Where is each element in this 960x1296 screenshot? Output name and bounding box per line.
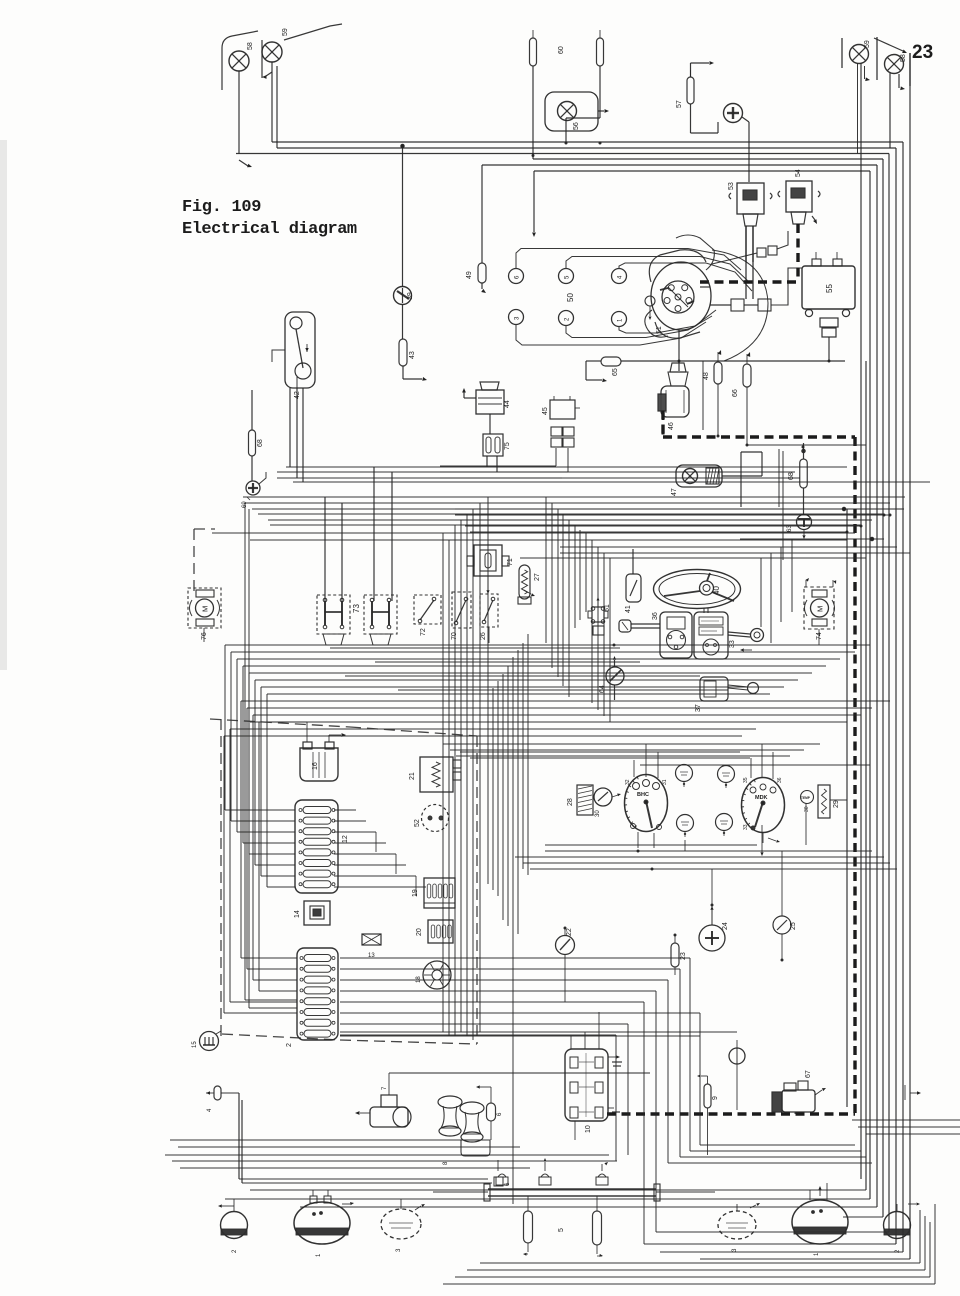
svg-text:25: 25 bbox=[790, 922, 797, 930]
svg-text:33: 33 bbox=[729, 640, 736, 648]
svg-text:5: 5 bbox=[558, 1228, 565, 1232]
svg-text:9: 9 bbox=[712, 1096, 719, 1100]
svg-text:58: 58 bbox=[900, 54, 907, 62]
svg-text:72: 72 bbox=[420, 628, 427, 636]
svg-text:45: 45 bbox=[542, 407, 549, 415]
svg-text:44: 44 bbox=[504, 400, 511, 408]
svg-text:30: 30 bbox=[804, 806, 810, 812]
svg-text:67: 67 bbox=[805, 1070, 812, 1078]
svg-text:43: 43 bbox=[409, 351, 416, 359]
svg-text:26: 26 bbox=[480, 632, 487, 640]
svg-text:66: 66 bbox=[732, 389, 739, 397]
svg-text:74: 74 bbox=[816, 632, 823, 640]
svg-text:41: 41 bbox=[625, 605, 632, 613]
svg-text:27: 27 bbox=[534, 573, 541, 581]
svg-text:76: 76 bbox=[201, 632, 208, 640]
svg-text:21: 21 bbox=[409, 772, 416, 780]
svg-text:36: 36 bbox=[652, 612, 659, 620]
svg-text:58: 58 bbox=[247, 42, 254, 50]
svg-text:31: 31 bbox=[662, 779, 668, 785]
svg-text:39: 39 bbox=[407, 292, 414, 300]
svg-text:53: 53 bbox=[728, 182, 735, 190]
svg-text:59: 59 bbox=[864, 40, 871, 48]
svg-text:22: 22 bbox=[566, 928, 573, 936]
svg-text:35: 35 bbox=[743, 777, 749, 783]
svg-text:55: 55 bbox=[825, 284, 834, 293]
svg-text:57: 57 bbox=[676, 100, 683, 108]
svg-text:28: 28 bbox=[567, 798, 574, 806]
svg-text:49: 49 bbox=[466, 271, 473, 279]
svg-text:68: 68 bbox=[257, 439, 264, 447]
svg-text:15: 15 bbox=[192, 1041, 198, 1048]
svg-text:19: 19 bbox=[412, 889, 419, 897]
svg-text:29: 29 bbox=[833, 800, 840, 808]
svg-text:Fig. 109: Fig. 109 bbox=[182, 198, 261, 217]
svg-text:30: 30 bbox=[595, 810, 601, 817]
svg-text:24: 24 bbox=[722, 922, 729, 930]
svg-text:M: M bbox=[816, 606, 825, 612]
svg-text:47: 47 bbox=[671, 488, 678, 496]
svg-text:BHC: BHC bbox=[637, 792, 649, 798]
svg-text:TEMP: TEMP bbox=[801, 796, 811, 800]
svg-text:73: 73 bbox=[352, 604, 361, 613]
svg-text:16: 16 bbox=[312, 762, 319, 770]
svg-text:56: 56 bbox=[573, 122, 580, 130]
svg-text:65: 65 bbox=[612, 368, 619, 376]
svg-text:48: 48 bbox=[703, 372, 710, 380]
svg-text:64: 64 bbox=[599, 685, 606, 693]
svg-text:Electrical diagram: Electrical diagram bbox=[182, 220, 357, 239]
svg-text:54: 54 bbox=[795, 169, 802, 177]
svg-text:68: 68 bbox=[788, 472, 795, 480]
svg-text:20: 20 bbox=[416, 928, 423, 936]
svg-text:23: 23 bbox=[680, 952, 687, 960]
svg-text:33: 33 bbox=[743, 824, 749, 830]
svg-text:M: M bbox=[201, 606, 210, 612]
svg-text:50: 50 bbox=[566, 293, 575, 302]
svg-text:71: 71 bbox=[507, 558, 514, 566]
svg-text:12: 12 bbox=[342, 835, 349, 843]
svg-text:14: 14 bbox=[294, 910, 301, 918]
svg-text:23: 23 bbox=[912, 42, 933, 63]
svg-text:18: 18 bbox=[416, 976, 422, 983]
svg-text:46: 46 bbox=[668, 422, 675, 430]
svg-text:60: 60 bbox=[558, 46, 565, 54]
svg-text:36: 36 bbox=[777, 777, 783, 783]
svg-text:10: 10 bbox=[585, 1125, 592, 1133]
svg-text:32: 32 bbox=[625, 779, 631, 785]
svg-text:75: 75 bbox=[504, 442, 511, 450]
svg-text:59: 59 bbox=[282, 28, 289, 36]
svg-text:MDK: MDK bbox=[755, 795, 768, 801]
svg-text:52: 52 bbox=[414, 819, 421, 827]
svg-text:40: 40 bbox=[712, 586, 721, 595]
svg-text:2: 2 bbox=[286, 1043, 293, 1047]
